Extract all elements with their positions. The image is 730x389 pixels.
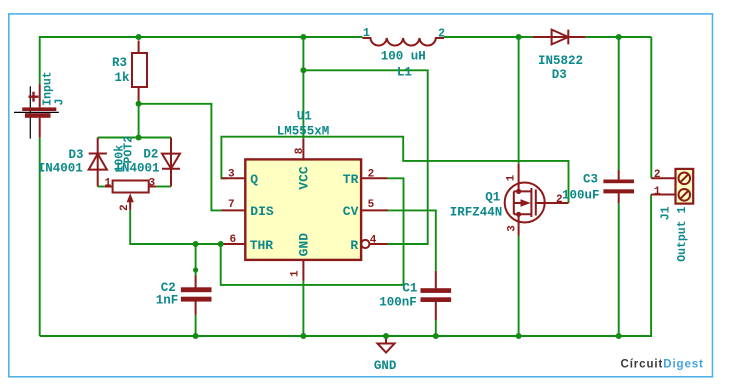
wire THR to TR link bbox=[221, 178, 404, 285]
transistor Q1 IRFZ44N bbox=[450, 164, 569, 236]
svg-text:Output 1: Output 1 bbox=[676, 206, 689, 261]
wire R3 bottom to pot top bbox=[138, 104, 140, 138]
battery J Input bbox=[14, 71, 67, 138]
svg-text:7: 7 bbox=[228, 199, 235, 211]
op-amp U1 LM555xM body bbox=[245, 110, 361, 260]
svg-text:2: 2 bbox=[654, 169, 661, 181]
svg-text:R: R bbox=[350, 238, 358, 253]
svg-text:GND: GND bbox=[374, 359, 397, 373]
svg-text:J: J bbox=[54, 99, 67, 106]
svg-text:LM555xM: LM555xM bbox=[277, 125, 330, 139]
potentiometer POT2 100k bbox=[105, 136, 157, 211]
svg-text:C3: C3 bbox=[583, 172, 598, 186]
inductor L1 100uH bbox=[362, 27, 445, 80]
wire top rail mid bbox=[444, 36, 533, 38]
U1 pin 1 GND bbox=[290, 233, 312, 281]
U1 pin 2 TR bbox=[343, 168, 388, 187]
svg-text:IRFZ44N: IRFZ44N bbox=[450, 206, 503, 220]
wire Q output to Q1 bbox=[221, 137, 568, 203]
svg-text:8: 8 bbox=[294, 147, 306, 154]
wire bottom rail bbox=[40, 195, 651, 337]
svg-text:1: 1 bbox=[105, 178, 112, 190]
svg-text:IN4001: IN4001 bbox=[38, 162, 83, 176]
wire VCC to R pin bbox=[303, 70, 427, 244]
wire D3 to pot pin1 bbox=[98, 186, 105, 188]
wire pot wiper to THR bbox=[130, 210, 221, 244]
wire battery bottom bbox=[39, 138, 41, 336]
svg-text:CírcuitDigest: CírcuitDigest bbox=[621, 359, 704, 371]
svg-text:2: 2 bbox=[368, 168, 375, 180]
svg-text:TR: TR bbox=[343, 172, 359, 187]
wire C3 bottom bbox=[618, 203, 620, 336]
wire J1 pin2 bbox=[650, 37, 652, 178]
wire C3 top bbox=[618, 37, 620, 170]
svg-text:1: 1 bbox=[506, 174, 518, 181]
svg-text:1: 1 bbox=[654, 186, 661, 198]
svg-text:6: 6 bbox=[230, 234, 237, 246]
capacitor C1 100nF bbox=[379, 271, 451, 320]
svg-text:1: 1 bbox=[290, 270, 302, 277]
resistor R3 bbox=[112, 41, 147, 104]
svg-text:1k: 1k bbox=[115, 71, 131, 85]
wire VCC pin8 bbox=[302, 37, 304, 138]
svg-text:C1: C1 bbox=[402, 282, 417, 296]
CircuitDigest logo bbox=[621, 359, 704, 371]
wire CV to C1 bbox=[386, 210, 436, 271]
capacitor C3 100uF bbox=[562, 170, 634, 203]
U1 pin 3 Q bbox=[221, 169, 258, 188]
svg-text:4: 4 bbox=[370, 235, 377, 247]
svg-text:D2: D2 bbox=[143, 148, 158, 162]
U1 pin 4 R with bubble bbox=[350, 235, 387, 254]
diode D2 IN4001 bbox=[115, 138, 181, 187]
svg-text:D3: D3 bbox=[69, 148, 84, 162]
U1 pin 7 DIS bbox=[221, 199, 274, 219]
svg-text:R3: R3 bbox=[112, 56, 127, 70]
U1 pin 5 CV bbox=[343, 199, 388, 219]
wire pot pin3 to D2 bbox=[156, 186, 171, 188]
svg-text:3: 3 bbox=[507, 225, 519, 232]
svg-text:U1: U1 bbox=[297, 110, 312, 124]
U1 pin 6 THR bbox=[221, 234, 273, 253]
svg-text:3: 3 bbox=[228, 169, 235, 181]
svg-text:THR: THR bbox=[250, 238, 274, 253]
svg-text:100uF: 100uF bbox=[562, 189, 600, 203]
wire C2 to ground rail bbox=[195, 315, 197, 337]
svg-text:POT2: POT2 bbox=[123, 136, 136, 164]
svg-text:VCC: VCC bbox=[297, 166, 312, 190]
svg-text:1: 1 bbox=[363, 27, 370, 40]
wire top rail right bbox=[586, 36, 652, 38]
svg-text:CV: CV bbox=[343, 204, 359, 219]
connector J1 Output 1 bbox=[651, 169, 693, 262]
wire GND pin1 bbox=[302, 281, 304, 336]
wire Q1 source to ground rail bbox=[518, 236, 520, 337]
svg-text:5: 5 bbox=[368, 199, 375, 211]
svg-text:GND: GND bbox=[297, 233, 312, 257]
svg-text:Q: Q bbox=[250, 172, 258, 187]
ground bbox=[374, 336, 397, 373]
svg-text:3: 3 bbox=[149, 178, 156, 190]
wire THR to C2 bbox=[195, 244, 197, 276]
capacitor C2 1nF bbox=[156, 276, 212, 315]
wire top rail left bbox=[40, 37, 363, 85]
wire C1 to ground rail bbox=[435, 320, 437, 336]
svg-text:Q1: Q1 bbox=[485, 191, 500, 205]
svg-text:100nF: 100nF bbox=[379, 296, 417, 310]
svg-text:2: 2 bbox=[119, 204, 131, 211]
svg-text:DIS: DIS bbox=[250, 204, 274, 219]
wire R3 bottom to DIS bbox=[139, 104, 222, 211]
svg-text:2: 2 bbox=[556, 194, 563, 206]
svg-text:IN5822: IN5822 bbox=[538, 54, 583, 68]
svg-text:1nF: 1nF bbox=[156, 294, 179, 308]
svg-text:2: 2 bbox=[438, 27, 445, 40]
svg-text:J1: J1 bbox=[660, 206, 673, 220]
U1 pin 8 VCC bbox=[294, 138, 312, 189]
svg-text:L1: L1 bbox=[397, 66, 412, 80]
svg-text:D3: D3 bbox=[552, 68, 567, 82]
wire L1/D3 node to Q1 drain bbox=[518, 37, 520, 164]
diode D3 IN5822 bbox=[533, 30, 586, 82]
wire pot top bbox=[98, 137, 171, 139]
svg-text:100 uH: 100 uH bbox=[381, 50, 426, 64]
diode D3 IN4001 bbox=[38, 138, 107, 187]
